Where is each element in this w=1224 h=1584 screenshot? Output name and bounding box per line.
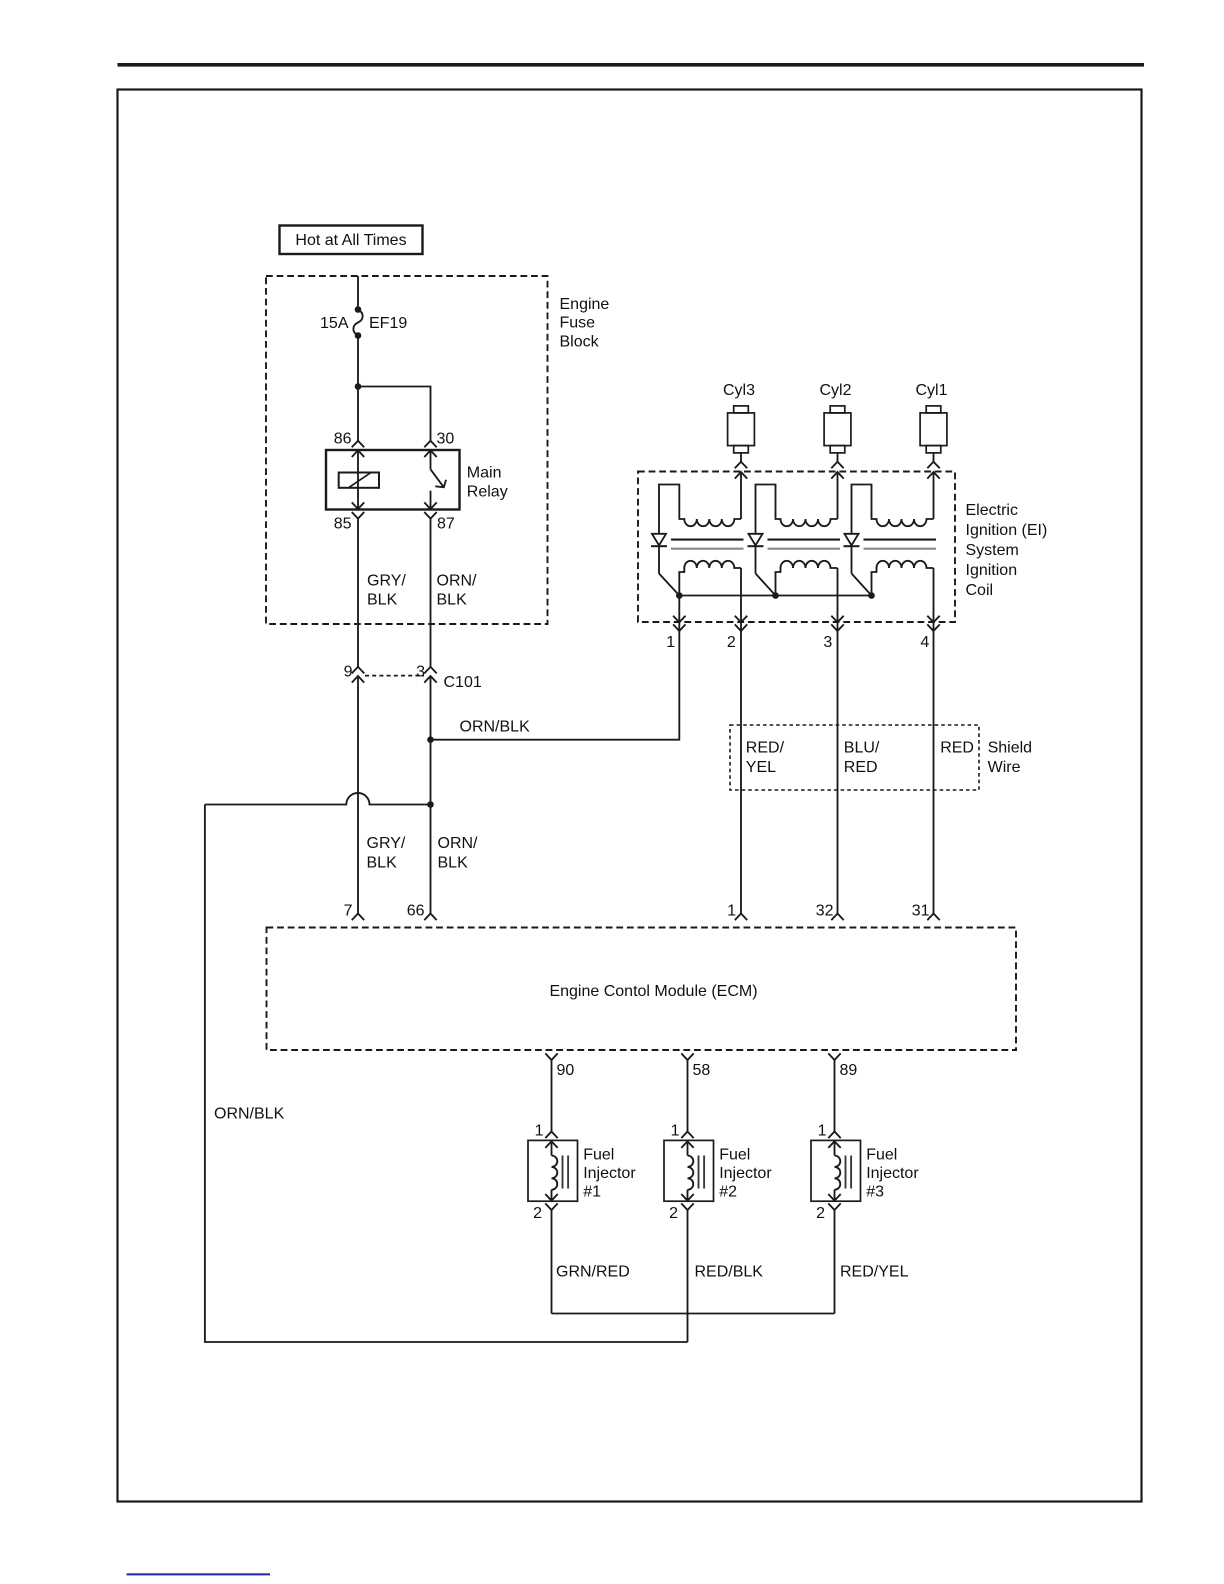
relay pin 30 connector chevron [424,441,436,448]
ignition coil 1 secondary winding [679,561,741,596]
svg-text:66: 66 [407,903,425,920]
svg-text:3: 3 [823,634,832,651]
svg-text:GRY/: GRY/ [367,835,406,852]
injector #2 box [664,1140,714,1201]
svg-text:RED/YEL: RED/YEL [840,1264,909,1281]
svg-text:RED/: RED/ [746,739,785,756]
ECM pin 32 chevron [831,914,843,921]
svg-text:Cyl2: Cyl2 [819,382,851,399]
svg-text:RED: RED [844,759,878,776]
wire: ORN/BLK to ignition coil pin 1 [431,631,680,740]
relay coil [339,473,379,488]
coil pin 4 [933,568,935,631]
wire: relay coil path [357,450,359,509]
svg-text:BLK: BLK [437,592,468,609]
svg-text:#2: #2 [719,1184,737,1201]
svg-text:Cyl1: Cyl1 [915,382,947,399]
junction: coil 3 common node [868,592,875,599]
junction: coil 2 common node [772,592,779,599]
ignition coil 3 core [864,539,937,541]
svg-text:BLK: BLK [367,592,398,609]
svg-text:3: 3 [416,663,425,680]
wire: GRY/BLK relay 85 to C101 pin 9 [357,519,359,667]
svg-text:RED: RED [940,739,974,756]
svg-text:ORN/: ORN/ [438,835,479,852]
ignition coil 1 core [671,539,744,541]
svg-text:90: 90 [557,1062,575,1079]
ECM pin 58 chevron [681,1053,693,1060]
ignition coil 1 primary winding [659,485,741,534]
page border frame [118,90,1142,1502]
svg-text:RED/BLK: RED/BLK [695,1264,764,1281]
injector #1 box [528,1140,578,1201]
C101 pin 3 chevrons [424,667,436,674]
svg-text:Ignition: Ignition [966,562,1018,579]
svg-text:Coil: Coil [966,582,994,599]
svg-text:9: 9 [344,663,353,680]
svg-text:Injector: Injector [866,1165,919,1182]
svg-text:Fuel: Fuel [719,1147,750,1164]
injector #1 pin 1 chevron [545,1132,557,1139]
ignition coil 2 primary winding [756,485,838,534]
relay pin 87 connector chevron [424,502,436,509]
relay pin 85 connector chevron [352,502,364,509]
diode D2 [749,534,763,546]
svg-text:Block: Block [560,333,600,350]
svg-text:85: 85 [334,516,352,533]
svg-text:Relay: Relay [467,483,508,500]
ECM pin 1 chevron [735,914,747,921]
svg-text:31: 31 [912,903,930,920]
Hot at All Times label box [280,226,423,255]
svg-text:2: 2 [669,1205,678,1222]
wire: coil common bus [679,595,871,597]
Electric Ignition System Ignition Coil dashed box [638,472,955,623]
shield wire dashed box [730,725,979,790]
wire: injector 1 to injector 3 bridge [552,1313,835,1315]
svg-text:Hot at All Times: Hot at All Times [295,232,406,249]
svg-text:Wire: Wire [988,759,1021,776]
svg-text:#1: #1 [583,1184,601,1201]
relay pin 86 connector chevron [352,441,364,448]
wire: ORN/BLK C101 to ECM pin 66 [430,676,432,913]
svg-text:Electric: Electric [966,502,1018,519]
svg-text:1: 1 [671,1123,680,1140]
junction: coil 1 common node [676,592,683,599]
diode D1 [652,534,666,546]
svg-text:30: 30 [437,431,455,448]
ignition coil 3 primary winding [852,485,934,534]
injector #1 solenoid coil [552,1156,558,1190]
svg-text:ORN/: ORN/ [437,573,478,590]
main relay box [326,450,460,510]
svg-text:BLK: BLK [367,854,398,871]
svg-text:89: 89 [840,1062,858,1079]
ECM pin 89 chevron [828,1053,840,1060]
diode D3 [845,534,859,546]
svg-text:2: 2 [816,1205,825,1222]
wire: fuse to relay pin 86 [357,336,359,441]
svg-text:Main: Main [467,464,502,481]
svg-text:Engine Contol Module (ECM): Engine Contol Module (ECM) [549,983,757,1000]
ignition coil 2 secondary winding [776,561,838,596]
spark plug Cyl2 [830,406,845,413]
svg-text:ORN/BLK: ORN/BLK [214,1105,285,1122]
ECM pin 7 chevron [352,914,364,921]
svg-text:C101: C101 [444,674,482,691]
wire: ECM pin 90 to injector [551,1060,553,1131]
coil pin 1 [678,596,680,632]
spark plug Cyl3 [734,406,749,413]
svg-text:58: 58 [693,1062,711,1079]
svg-text:Shield: Shield [988,739,1032,756]
ECM pin 66 chevron [424,914,436,921]
coil output pin chevrons [927,462,939,469]
svg-text:86: 86 [334,431,352,448]
svg-text:YEL: YEL [746,759,776,776]
injector #2 pin 2 chevron [681,1203,693,1210]
svg-text:Fuse: Fuse [560,315,596,332]
svg-text:1: 1 [535,1123,544,1140]
wire: hot feed to fuse EF19 [357,276,359,310]
wire: ORN/BLK branch with hop over GRY/BLK [205,793,431,805]
svg-text:87: 87 [437,516,455,533]
svg-text:EF19: EF19 [369,315,407,332]
relay switch contact [430,450,432,469]
ECM pin 90 chevron [545,1053,557,1060]
svg-text:ORN/BLK: ORN/BLK [460,719,531,736]
injector #1 pin 2 chevron [545,1203,557,1210]
wire: RED/YEL injector 3 return [834,1210,836,1314]
svg-text:Fuel: Fuel [866,1147,897,1164]
svg-text:Ignition (EI): Ignition (EI) [966,522,1048,539]
svg-text:GRY/: GRY/ [367,573,406,590]
Engine Fuse Block dashed box [266,276,548,624]
svg-text:2: 2 [727,634,736,651]
C101 pin 9 chevrons [352,667,364,674]
svg-text:1: 1 [727,903,736,920]
svg-text:4: 4 [920,634,929,651]
wire: ECM pin 89 to injector [834,1060,836,1131]
wire: ORN/BLK relay 87 to C101 pin 3 [430,519,432,667]
coil pin 2 [740,568,742,631]
wire: branch to relay pin 30 [358,387,431,441]
svg-text:BLU/: BLU/ [844,739,880,756]
junction: fuse output node [355,383,362,390]
wire: RED/BLK injector 2 return [687,1210,689,1342]
svg-text:GRN/RED: GRN/RED [556,1264,630,1281]
wire: ORN/BLK long left run to injector 2 return [205,805,688,1343]
ECM pin 31 chevron [927,914,939,921]
coil pin 3 [837,568,839,631]
spark plug Cyl1 [926,406,941,413]
coil output pin chevrons [831,462,843,469]
svg-text:Injector: Injector [719,1165,772,1182]
svg-text:1: 1 [666,634,675,651]
junction: ORN/BLK tap to ignition coil [427,736,434,743]
wire: coil pin 2 to ECM pin 1 [740,631,742,913]
wire: ECM pin 58 to injector [687,1060,689,1131]
svg-text:1: 1 [818,1123,827,1140]
svg-text:Cyl3: Cyl3 [723,382,755,399]
svg-text:System: System [966,542,1019,559]
injector #2 solenoid coil [688,1156,694,1190]
injector #3 pin 1 chevron [828,1132,840,1139]
junction: ORN/BLK tap to injector return [427,801,434,808]
connector C101 [365,675,424,677]
svg-text:BLK: BLK [438,854,469,871]
svg-text:#3: #3 [866,1184,884,1201]
svg-text:Engine: Engine [560,296,610,313]
svg-text:15A: 15A [320,315,349,332]
injector #2 pin 1 chevron [681,1132,693,1139]
hyperlink underline [127,1573,271,1575]
svg-text:Injector: Injector [583,1165,636,1182]
ignition coil 2 core [768,539,841,541]
fuse EF19 15A [355,306,362,313]
svg-text:2: 2 [533,1205,542,1222]
injector #3 pin 2 chevron [828,1203,840,1210]
svg-text:32: 32 [816,903,834,920]
wire: GRY/BLK C101 to ECM pin 7 [357,676,359,913]
ignition coil 3 secondary winding [872,561,934,596]
svg-text:7: 7 [344,903,353,920]
top rule line [118,63,1145,67]
injector #3 box [811,1140,861,1201]
coil output pin chevrons [735,462,747,469]
Engine Control Module dashed box [267,928,1017,1051]
wire: coil pin 3 to ECM pin 32 [837,631,839,913]
svg-text:Fuel: Fuel [583,1147,614,1164]
injector #3 solenoid coil [835,1156,841,1190]
wire: coil pin 4 to ECM pin 31 [933,631,935,913]
wire: GRN/RED injector 1 return [551,1210,553,1314]
